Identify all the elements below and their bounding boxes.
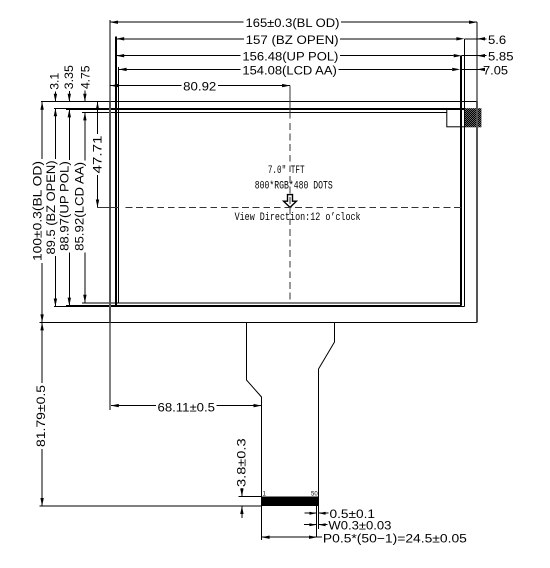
svg-text:88.97(UP POL): 88.97(UP POL) <box>58 161 72 251</box>
contact end tick <box>315 506 317 538</box>
dim 3.8 line and arrows <box>241 488 243 497</box>
module right edge <box>476 102 478 323</box>
svg-text:68.11±0.5: 68.11±0.5 <box>158 400 216 414</box>
dim 3.35 line and arrows <box>68 91 70 102</box>
bezel bottom edge with left extension <box>54 306 464 308</box>
dim 100 line and arrows <box>41 102 43 159</box>
svg-text:P0.5*(50−1)=24.5±0.05: P0.5*(50−1)=24.5±0.05 <box>323 531 467 545</box>
fpc left edge extension down <box>261 506 263 540</box>
svg-text:154.08(LCD AA): 154.08(LCD AA) <box>242 63 336 77</box>
svg-text:View Direction:12 o’clock: View Direction:12 o’clock <box>235 212 361 224</box>
module left edge with extensions <box>109 20 111 102</box>
dim 154.08 leader line <box>119 68 241 70</box>
bezel open top edge with left extension <box>54 107 464 109</box>
fpc right edge extension down <box>318 506 320 529</box>
view direction hollow arrow <box>284 195 297 208</box>
bezel right edge with extension up <box>463 39 465 307</box>
svg-text:156.48(UP POL): 156.48(UP POL) <box>242 50 338 64</box>
dim 0.5 line and arrows <box>305 512 317 514</box>
dim 47.71 line and arrows <box>97 102 99 134</box>
tick on module right edge <box>476 303 478 308</box>
fpc left edge <box>247 322 262 506</box>
center horizontal dashed line <box>98 207 120 209</box>
svg-text:4.75: 4.75 <box>79 65 93 89</box>
dim 80.92 line <box>110 85 181 87</box>
svg-text:3.35: 3.35 <box>62 65 76 89</box>
dim 3.1 line and arrows <box>54 92 56 102</box>
module right edge extension up <box>476 22 478 102</box>
dim 81.79 line and arrows <box>41 322 43 383</box>
backlight connector hatched block <box>465 108 482 127</box>
svg-text:80.92: 80.92 <box>183 80 216 94</box>
dim 4.75 line and arrows <box>84 91 86 102</box>
dim 68.11 line and arrows <box>111 405 156 407</box>
svg-text:5.85: 5.85 <box>488 50 514 64</box>
svg-text:3.1: 3.1 <box>47 73 61 90</box>
svg-text:47.71: 47.71 <box>90 135 104 173</box>
svg-text:7.05: 7.05 <box>483 63 508 77</box>
module bottom edge with left extension <box>40 321 478 323</box>
dim 157 leader line <box>116 38 244 40</box>
svg-text:89.5 (BZ OPEN): 89.5 (BZ OPEN) <box>44 161 58 255</box>
dim 89.5 line and arrows <box>54 108 56 159</box>
svg-text:5.6: 5.6 <box>488 33 506 47</box>
lcd aa and pol right edges merged band <box>460 56 462 306</box>
svg-text:800*RGB*480 DOTS: 800*RGB*480 DOTS <box>255 181 333 193</box>
connector contact black bar <box>262 497 319 507</box>
dim 5.6 line <box>464 38 477 40</box>
dim 165 leader line <box>110 21 244 23</box>
module top edge with left extension <box>41 101 477 103</box>
backlight fpc white box <box>447 110 465 127</box>
lcd aa left edge with extension up <box>118 67 120 303</box>
dim 88.97 line and arrows <box>68 109 70 160</box>
center vertical dashed line <box>289 86 291 119</box>
lcd aa bottom edge with left extension <box>82 302 460 304</box>
dim P0.5 line and arrows <box>262 536 317 538</box>
svg-text:7.0″ TFT: 7.0″ TFT <box>268 165 305 177</box>
dim 5.85 line <box>462 55 477 57</box>
dim 7.05 line <box>460 68 477 70</box>
fpc right edge <box>319 322 335 506</box>
svg-text:165±0.3(BL OD): 165±0.3(BL OD) <box>246 16 340 30</box>
svg-text:81.79±0.5: 81.79±0.5 <box>34 385 48 447</box>
up pol top edge with left extension <box>66 108 462 110</box>
svg-text:157 (BZ OPEN): 157 (BZ OPEN) <box>246 33 339 47</box>
dim 156.48 leader line <box>116 55 240 57</box>
contact top extension left <box>239 496 262 498</box>
dim W0.3 line and arrows <box>304 524 317 526</box>
bezel and pol left edges merged band <box>115 37 117 307</box>
svg-text:50: 50 <box>311 492 318 498</box>
dim 85.92 line and arrows <box>84 112 86 160</box>
svg-text:100±0.3(BL OD): 100±0.3(BL OD) <box>31 161 45 261</box>
svg-text:85.92(LCD AA): 85.92(LCD AA) <box>72 162 86 251</box>
up pol bottom edge with left extension <box>66 305 462 307</box>
svg-text:3.8±0.3: 3.8±0.3 <box>235 438 249 487</box>
connector bottom long extension <box>40 505 262 507</box>
lcd aa top edge with left extension <box>82 111 460 113</box>
